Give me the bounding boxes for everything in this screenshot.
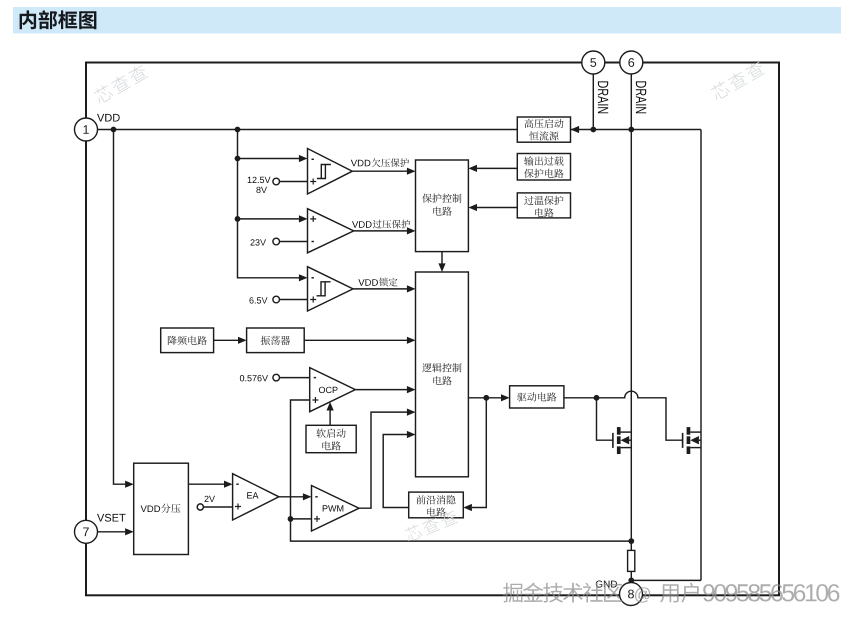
watermark 芯查查 top-left <box>92 63 149 105</box>
pin 8 GND <box>620 583 643 606</box>
pin 7 VSET <box>75 520 98 543</box>
wire overload to protection <box>477 167 517 169</box>
comparator U3 (VDD lock) triangle <box>308 267 354 311</box>
node junction sense tap <box>628 538 634 544</box>
wire U3 output VDD锁定 <box>353 288 407 290</box>
wire to comparator U2 input <box>238 218 300 220</box>
wire OCP output to logic <box>355 389 407 391</box>
wire resistor to GND node <box>630 571 632 583</box>
transistor Q2 (right MOSFET) <box>682 433 684 448</box>
wire oscillator to logic <box>304 339 407 341</box>
comparator OCP triangle <box>310 368 356 412</box>
IC outline frame <box>86 63 779 596</box>
wire OTP to protection <box>477 207 517 209</box>
terminal 2V reference <box>197 504 203 510</box>
resistor R1 current sense <box>628 550 635 571</box>
block 输出过载保护电路 <box>517 154 570 181</box>
block 高压启动恒流源 <box>517 117 570 142</box>
watermark 芯查查 bottom-center <box>403 508 458 542</box>
terminal 6.5V reference <box>273 296 280 303</box>
wire gate branch to Q1 <box>597 398 613 440</box>
node junction comp2 feed <box>235 216 241 222</box>
node junction pin6 on drain wire <box>628 127 634 133</box>
error amp EA triangle <box>233 474 279 520</box>
wire Q2 source to GND node <box>631 579 701 581</box>
terminal 23V reference <box>273 238 280 245</box>
wire VDD bus from pin1 <box>98 129 518 131</box>
block 降频电路 <box>161 328 214 353</box>
node junction PWM+ tap <box>288 516 294 522</box>
block VDD分压 <box>134 463 189 554</box>
wire logic to driver <box>468 397 501 399</box>
wire LEB input from drive node <box>472 398 486 508</box>
node junction driver input / LEB tap <box>483 395 489 401</box>
wire DRAIN rail to startup source <box>571 129 702 131</box>
block 驱动电路 <box>510 386 564 408</box>
wire to comparator U1 input <box>238 158 300 160</box>
wire PWM output to logic <box>359 412 407 508</box>
block 前沿消隐电路 <box>409 492 464 518</box>
wire gate drive with crossover hop <box>564 391 683 440</box>
node junction comp1 feed <box>235 156 241 162</box>
wire EA output to PWM <box>279 496 303 498</box>
watermark 芯查查 top-right <box>709 59 766 101</box>
wire right rail from startup wire to Q2 <box>700 130 702 581</box>
label VDD锁定 <box>358 279 378 286</box>
node junction on VDD bus (to comparators) <box>235 127 241 133</box>
pin 1 VDD <box>75 118 98 141</box>
wire U1 output VDD欠压保护 <box>352 170 407 172</box>
wire divider to EA <box>188 483 224 485</box>
wire current sense from resistor to OCP+ and PWM+ <box>291 400 632 541</box>
node junction on VDD bus (to VDD divider) <box>111 127 117 133</box>
wire comparator feed vertical <box>238 130 300 278</box>
pin 6 DRAIN <box>620 51 643 74</box>
block 振荡器 <box>247 328 305 353</box>
node junction gate drive split <box>594 395 600 401</box>
wire LEB output to logic <box>383 435 409 508</box>
comparator PWM triangle <box>312 486 360 532</box>
wire 降频 to 振荡器 <box>214 339 238 341</box>
wire pin1 branch down to VDD divider <box>114 130 126 485</box>
terminal 0.576V reference <box>273 374 280 381</box>
terminal 12.5V/8V reference <box>273 178 280 185</box>
block 逻辑控制电路 <box>416 272 469 477</box>
wire softstart to OCP <box>329 408 331 425</box>
block 软启动电路 <box>306 425 356 452</box>
block 保护控制电路 <box>416 160 469 252</box>
wire pin5 stub <box>592 74 594 130</box>
node junction pin5 on drain wire <box>590 127 596 133</box>
transistor Q1 (left MOSFET) <box>612 433 614 448</box>
node junction GND <box>628 578 634 584</box>
comparator U1 (VDD UVLO) triangle <box>308 149 353 195</box>
header bar 内部框图 <box>13 7 841 34</box>
label VDD过压保护 <box>352 221 372 228</box>
wire protection to logic <box>441 252 443 264</box>
wire U2 output VDD过压保护 <box>354 230 407 232</box>
label GND <box>596 581 617 588</box>
label VDD欠压保护 <box>351 160 371 167</box>
wire pin6 / Q1 drain-source rail <box>630 74 632 550</box>
block 过温保护电路 <box>517 193 570 218</box>
pin 5 DRAIN <box>582 51 605 74</box>
watermark 掘金技术社区 @ 用户909585656106 <box>503 583 839 603</box>
comparator U2 (VDD OVP) triangle <box>308 209 354 253</box>
wire pin7 to divider <box>98 531 126 533</box>
